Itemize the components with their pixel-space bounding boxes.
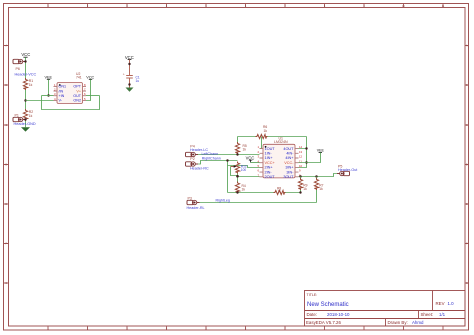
svg-text:Header-VCC: Header-VCC <box>15 72 37 76</box>
svg-text:1k: 1k <box>29 83 33 87</box>
wire OUT to feedback <box>86 95 100 97</box>
svg-text:+: + <box>123 72 125 76</box>
wire to 2IN+ <box>228 166 260 168</box>
capacitor C1 leads <box>129 60 131 88</box>
svg-text:G: G <box>466 282 468 285</box>
svg-text:4IN+: 4IN+ <box>285 156 294 160</box>
U1 pin stubs <box>260 149 299 177</box>
capacitor C1 plates <box>126 76 133 79</box>
title block labels <box>306 293 445 325</box>
svg-text:1k: 1k <box>278 189 282 193</box>
wire VEE to +IN net <box>48 79 50 95</box>
svg-text:Header-Out: Header-Out <box>338 168 357 172</box>
wire +IN net <box>42 95 54 97</box>
resistor R2 <box>23 109 27 121</box>
svg-text:1k: 1k <box>243 148 247 152</box>
wire net RightChann <box>198 161 238 165</box>
svg-text:+IN: +IN <box>59 94 65 98</box>
svg-text:VCC: VCC <box>125 55 134 60</box>
svg-text:ON2: ON2 <box>73 99 81 103</box>
IC U1 LM324N body <box>263 136 295 178</box>
svg-text:4OUT: 4OUT <box>283 147 294 151</box>
svg-text:VCC: VCC <box>246 155 255 160</box>
svg-text:G: G <box>5 282 7 285</box>
svg-text:3IN-: 3IN- <box>286 170 294 174</box>
svg-text:D: D <box>466 164 468 167</box>
resistor R8 <box>274 190 286 194</box>
svg-text:P2: P2 <box>190 157 194 161</box>
svg-text:1/1: 1/1 <box>439 312 446 317</box>
svg-text:P6: P6 <box>16 67 20 71</box>
U1 pin names <box>265 147 295 179</box>
wire rail B <box>237 174 239 182</box>
svg-text:Header-RL: Header-RL <box>187 206 205 210</box>
svg-text:V+: V+ <box>76 89 81 93</box>
svg-text:OPT: OPT <box>73 85 81 89</box>
wire feedback loop <box>42 96 100 110</box>
svg-text:RightChann: RightChann <box>202 157 221 161</box>
svg-text:741: 741 <box>76 75 82 79</box>
svg-text:1k: 1k <box>29 114 33 118</box>
svg-text:12: 12 <box>299 155 303 159</box>
svg-text:ON1: ON1 <box>59 85 67 89</box>
svg-text:P3: P3 <box>188 196 192 200</box>
wire bottom rail <box>228 192 301 194</box>
wire 4OUT loop to 3IN+ <box>299 137 307 168</box>
ground (left chain) <box>21 127 30 131</box>
svg-text:LM324N: LM324N <box>274 140 288 144</box>
svg-text:VCC: VCC <box>21 52 30 57</box>
U2 pin stubs <box>54 86 87 100</box>
ground (below C1) <box>126 88 134 92</box>
svg-text:C: C <box>5 124 7 127</box>
svg-text:1.0: 1.0 <box>448 301 455 306</box>
svg-text:3OUT: 3OUT <box>283 175 294 179</box>
node junction to U2 <box>24 99 26 101</box>
power flag VCC (net VCC, top left) <box>21 52 30 57</box>
connector P5 <box>337 171 350 175</box>
title block values <box>307 301 454 325</box>
svg-text:1k: 1k <box>264 129 268 133</box>
svg-text:/IN: /IN <box>59 89 64 93</box>
wire R7 to RightLeg <box>316 190 318 203</box>
svg-text:2OUT: 2OUT <box>265 175 276 179</box>
svg-text:VEE: VEE <box>317 149 325 153</box>
resistor R5 <box>235 142 239 154</box>
svg-text:1u: 1u <box>136 79 140 83</box>
potentiometer R12 <box>235 162 239 174</box>
wire net RightLeg <box>200 202 317 204</box>
svg-text:1OUT: 1OUT <box>265 147 276 151</box>
svg-text:100: 100 <box>241 168 247 172</box>
resistor R4 <box>235 182 239 194</box>
svg-text:D: D <box>5 164 7 167</box>
U2 pin numbers <box>54 83 86 101</box>
wire junction to U2 V- <box>26 100 54 102</box>
resistor R6 <box>256 134 268 138</box>
resistor R7 <box>316 177 318 179</box>
U1 pin numbers <box>257 145 259 177</box>
op-amp U2 body <box>57 72 83 104</box>
svg-text:LeftChann: LeftChann <box>202 152 219 156</box>
svg-text:VCC-: VCC- <box>284 161 294 165</box>
svg-text:1k: 1k <box>303 187 307 191</box>
svg-text:EasyEDA V5.7.26: EasyEDA V5.7.26 <box>306 320 341 325</box>
wire R2 to ground <box>25 121 27 127</box>
junction dots C1 <box>128 63 130 65</box>
resistor R9 <box>300 177 302 179</box>
svg-text:OUT: OUT <box>73 94 82 98</box>
wire top feedback rail <box>238 136 307 138</box>
wire R1 to R2 <box>25 90 27 109</box>
wire VEE to VCC- <box>299 152 321 162</box>
svg-text:2IN-: 2IN- <box>265 170 273 174</box>
svg-text:1IN+: 1IN+ <box>265 156 274 160</box>
wire rail down to R5 <box>237 137 239 143</box>
svg-text:New Schematic: New Schematic <box>307 302 349 308</box>
svg-text:13: 13 <box>299 150 303 154</box>
svg-text:Drawn By:: Drawn By: <box>388 320 408 325</box>
svg-text:P1: P1 <box>15 114 19 118</box>
connector P4 <box>186 152 199 156</box>
connector P2 <box>186 162 199 166</box>
wire 1OUT up to rail <box>260 137 262 149</box>
svg-text:1IN-: 1IN- <box>265 152 273 156</box>
svg-text:REV: REV <box>436 301 445 306</box>
wire 2OUT to rail B <box>238 176 260 178</box>
svg-text:RightLeg: RightLeg <box>216 198 230 202</box>
svg-text:Header-RC: Header-RC <box>190 167 209 171</box>
svg-text:Header-GND: Header-GND <box>14 122 36 126</box>
svg-text:4IN-: 4IN- <box>286 152 294 156</box>
junction dot <box>24 60 26 62</box>
svg-text:VCC+: VCC+ <box>265 161 276 165</box>
svg-text:1k: 1k <box>319 187 323 191</box>
svg-text:2018-10-10: 2018-10-10 <box>327 312 350 317</box>
svg-text:2IN+: 2IN+ <box>265 166 274 170</box>
svg-text:Sheet:: Sheet: <box>421 312 434 317</box>
title block <box>305 291 466 327</box>
svg-text:1k: 1k <box>242 188 246 192</box>
svg-text:C: C <box>466 124 468 127</box>
wire VCC flag to VCC+ <box>251 162 260 164</box>
svg-text:Ahmd: Ahmd <box>412 320 424 325</box>
wire VCC to ON2 <box>86 79 91 100</box>
wire RightChann rail down <box>227 161 229 193</box>
wire VCC flag to rail <box>25 57 27 78</box>
svg-text:Date:: Date: <box>307 312 318 317</box>
connector P1 <box>13 117 26 121</box>
wire R12 wiper tie <box>231 167 238 176</box>
wire output net <box>299 174 338 177</box>
resistor R1 <box>23 78 27 90</box>
connector P6 <box>13 59 26 63</box>
svg-text:3IN+: 3IN+ <box>285 166 294 170</box>
connector P3 <box>187 200 200 204</box>
U2 pin names <box>59 85 82 103</box>
wire net LeftChann <box>198 154 260 156</box>
svg-text:TITLE:: TITLE: <box>307 293 318 297</box>
